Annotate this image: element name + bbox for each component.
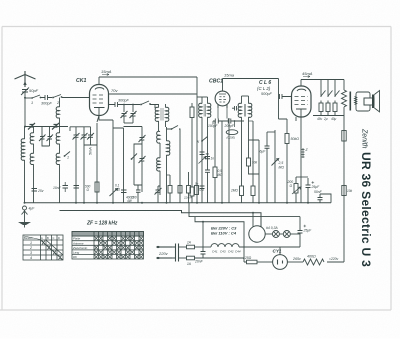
svg-text:C: C xyxy=(53,236,55,240)
IF1 core xyxy=(204,104,205,117)
svg-text:Zwischenkr.: Zwischenkr. xyxy=(72,246,88,250)
svg-text:15ma: 15ma xyxy=(224,73,235,78)
rail B y210 stepping to y212.8, ends at motor xyxy=(60,211,262,227)
fuse top xyxy=(179,241,204,249)
screen resistor 50k xyxy=(285,119,299,203)
svg-text:#4 0,3A: #4 0,3A xyxy=(266,226,278,230)
resistor box x253 xyxy=(249,121,256,203)
osc coil E xyxy=(167,127,170,203)
coil column B upper xyxy=(30,127,33,154)
oscillator IF coil pair (x158/165, y107-121) xyxy=(155,104,169,131)
junction dots rail A xyxy=(24,202,310,223)
screen line 70v xyxy=(109,88,197,94)
secondary voice-coil winding xyxy=(355,97,357,105)
oscillator branch wire x142 xyxy=(124,127,143,193)
svg-text:MΩ: MΩ xyxy=(279,165,285,169)
band switch contact 2 xyxy=(52,95,62,106)
series capacitor 300pF xyxy=(41,95,52,106)
oscillator switch branch xyxy=(131,144,142,185)
wire 296-308 top xyxy=(296,176,308,178)
wire antenna to grid bus xyxy=(24,93,26,127)
svg-text:400Ω: 400Ω xyxy=(307,255,316,259)
svg-text:265v: 265v xyxy=(292,257,301,261)
resistor 0.5M x215 xyxy=(213,121,223,203)
switch to osc grid top xyxy=(167,126,181,203)
wire grid return row xyxy=(70,127,91,131)
rail D from step x189 to x300 xyxy=(189,203,300,217)
dial lamps xyxy=(265,226,300,238)
coil column C lower xyxy=(56,153,59,203)
band switch contact 1 xyxy=(31,95,41,105)
svg-text:ZF = 128 kHz: ZF = 128 kHz xyxy=(86,221,118,227)
svg-text:2MΩ: 2MΩ xyxy=(230,189,238,193)
cathode capacitor C-k2 xyxy=(81,127,88,203)
trimmer bottoms tie line xyxy=(124,122,133,124)
svg-text:Platte: Platte xyxy=(73,237,81,241)
tube CBC1 xyxy=(215,79,230,109)
anode rail 45mA xyxy=(301,71,344,80)
motor / drum xyxy=(249,226,265,242)
padder trimmer capacitor right xyxy=(47,127,54,147)
svg-text:CBC1: CBC1 xyxy=(209,79,223,85)
svg-text:(C L 2): (C L 2) xyxy=(257,86,271,91)
wire antenna junction to band switch xyxy=(25,97,31,99)
junction dot antenna xyxy=(24,97,26,99)
small resistor box near x196 bottom xyxy=(195,186,205,195)
wire IF1 tops xyxy=(197,96,208,98)
svg-text:4μF: 4μF xyxy=(29,207,36,211)
trimmer cap on bus at x31 xyxy=(28,123,35,130)
osc coil D lower xyxy=(157,158,160,195)
output transformer primary (zigzag) xyxy=(342,80,347,263)
IF transformer 1 right coil xyxy=(208,97,211,160)
paper texture noise xyxy=(0,0,1,1)
trimmer capacitor C-t1 xyxy=(121,104,128,123)
svg-text:Antenne: Antenne xyxy=(72,241,84,245)
IF transformer 1 left coil xyxy=(199,97,202,203)
svg-text:1: 1 xyxy=(31,101,33,105)
osc padder caps bottom xyxy=(131,185,141,203)
volume pot 0.1M x113 xyxy=(110,184,121,197)
antenna coil A (tall) xyxy=(21,127,24,203)
resistor boxes bottom row x180/x188 xyxy=(178,186,182,194)
pot 2.5M x275 xyxy=(272,130,285,203)
svg-text:C44: C44 xyxy=(235,250,241,254)
svg-text:A: A xyxy=(41,236,43,240)
CBC1 pin wires down xyxy=(221,121,223,203)
coupling capacitor 500pF to CL6 grid xyxy=(261,92,292,99)
wire CK1 cathode to divider xyxy=(97,116,113,123)
grid-bus top wire with trimmers (y126.5) xyxy=(24,126,68,128)
motor left top wire xyxy=(252,213,254,227)
filter choke 4 humps xyxy=(203,244,300,254)
fuse bottom xyxy=(179,256,245,266)
wire switch to CK1 grid xyxy=(62,97,90,99)
cathode capacitor C-k1 xyxy=(73,127,80,203)
cap 5n on x202 xyxy=(195,182,205,189)
table 2 xyxy=(72,232,144,260)
mains plug prong bottom xyxy=(156,257,172,259)
table 1 xyxy=(23,235,63,260)
rail E from step x195 to x244 down to mains return xyxy=(195,217,244,258)
svg-text:10nF: 10nF xyxy=(53,186,62,190)
wire tap down to input coil xyxy=(59,98,61,108)
small oval label C200 xyxy=(226,130,238,140)
svg-text:CK1: CK1 xyxy=(76,78,86,84)
PART2 xyxy=(18,80,380,270)
rectifier CY1 xyxy=(273,247,288,269)
svg-text:Bereich: Bereich xyxy=(24,236,33,240)
anode supply rail 15mA xyxy=(99,69,197,77)
svg-text:10k: 10k xyxy=(347,189,353,193)
svg-text:300pF: 300pF xyxy=(118,99,129,103)
wire x113 xyxy=(112,120,114,203)
cap on x202 xyxy=(200,152,210,156)
svg-text:UR 36 Selectric U 3: UR 36 Selectric U 3 xyxy=(359,152,373,267)
svg-text:5n: 5n xyxy=(195,182,199,186)
svg-text:C42: C42 xyxy=(228,250,234,254)
svg-text:100pF: 100pF xyxy=(208,124,218,128)
IF transformer 2 right coil xyxy=(247,96,260,174)
cathode capacitor C-k3 xyxy=(84,127,97,145)
wire down x278 and 500pF coupling xyxy=(279,79,288,120)
wire x123.5 xyxy=(113,128,124,203)
svg-text:70v: 70v xyxy=(111,88,118,93)
IF transformer 2 left coil xyxy=(230,96,244,203)
svg-text:3: 3 xyxy=(30,251,32,255)
trimmer capacitor C-t2 xyxy=(130,104,137,123)
resistor box 7k x170 xyxy=(167,175,173,203)
wire x203 up to rail D xyxy=(202,222,204,247)
ground xyxy=(18,210,31,228)
svg-text:1A: 1A xyxy=(187,262,191,266)
svg-text:25μF: 25μF xyxy=(311,185,321,189)
PART3 xyxy=(23,118,255,260)
antenna trimmer capacitor 50pF xyxy=(21,88,39,96)
svg-text:Bei 110V : C4: Bei 110V : C4 xyxy=(211,231,237,236)
wire 267-275 top xyxy=(267,131,275,133)
IF2 core xyxy=(244,104,245,117)
pot arrow on x202 xyxy=(199,157,206,164)
oscillator trimmer upper xyxy=(139,135,146,142)
svg-text:≈220v: ≈220v xyxy=(329,257,339,261)
cap at x76 xyxy=(74,186,80,189)
resistor 2M x229 xyxy=(228,118,230,203)
cap at x207.5 xyxy=(205,160,210,203)
wire IF2 top xyxy=(242,95,249,97)
cap 50nF at x320 xyxy=(314,190,331,203)
svg-text:C43: C43 xyxy=(220,250,226,254)
CBC1 anode rail 15ma xyxy=(223,73,279,79)
coupling capacitor 300pF right of CK1 xyxy=(109,99,141,108)
padder trimmer capacitor left xyxy=(39,127,50,147)
wire rail down at x197 xyxy=(196,77,198,203)
plug body xyxy=(172,244,179,262)
svg-text:220v: 220v xyxy=(158,251,169,256)
electrolytic 25uF right xyxy=(298,217,313,247)
svg-text:500pF: 500pF xyxy=(261,92,272,96)
svg-text:45v: 45v xyxy=(317,117,323,121)
svg-text:1n: 1n xyxy=(211,157,215,161)
svg-text:25μF: 25μF xyxy=(303,229,313,233)
svg-text:5mA: 5mA xyxy=(89,147,93,155)
svg-text:DK: DK xyxy=(73,255,77,259)
svg-text:Ω: Ω xyxy=(290,184,293,188)
switch row to IF coil xyxy=(140,101,155,108)
dropper resistor boxes on supply line x344 xyxy=(342,131,353,196)
svg-text:C41: C41 xyxy=(212,250,218,254)
svg-text:50nF: 50nF xyxy=(314,190,323,194)
CL6 cathode wires xyxy=(295,117,297,121)
input coil L1 xyxy=(56,107,59,127)
loudspeaker xyxy=(356,91,380,112)
svg-text:4: 4 xyxy=(30,256,32,260)
svg-text:125Ω: 125Ω xyxy=(243,256,252,260)
resistor 500ohm x97 xyxy=(85,182,99,192)
svg-text:1A: 1A xyxy=(187,241,191,245)
cap 10nF at x65 xyxy=(53,182,68,192)
svg-text:50kΩ: 50kΩ xyxy=(291,137,300,141)
wave switch near coil C xyxy=(64,152,70,160)
rail A y202.8 xyxy=(25,202,332,204)
svg-text:300pF: 300pF xyxy=(41,102,52,106)
svg-text:B: B xyxy=(47,236,49,240)
svg-text:6μF: 6μF xyxy=(260,150,267,154)
resistor 200 ohm + pot xyxy=(287,177,301,203)
cap 6uF x267 xyxy=(260,132,270,203)
svg-text:2,5: 2,5 xyxy=(278,161,284,165)
wire x259 xyxy=(249,140,260,203)
svg-text:40μ: 40μ xyxy=(331,117,337,121)
RF choke Z x303 xyxy=(302,148,309,158)
tube CL6 xyxy=(292,80,312,118)
IF2 parallel cap xyxy=(232,106,237,111)
cap 20nF across mains xyxy=(194,247,206,264)
resistor 400 ohm zigzag xyxy=(303,255,344,266)
svg-text:Zenith: Zenith xyxy=(361,128,368,149)
cap 25v at x34 xyxy=(32,189,44,194)
coil column B lower xyxy=(30,153,33,203)
svg-text:2μ: 2μ xyxy=(323,117,328,121)
PSU dropper 1 xyxy=(317,80,326,122)
trimmer cap on bus at x55 xyxy=(52,123,59,130)
PSU dropper 2 xyxy=(323,80,333,122)
svg-text:45mA: 45mA xyxy=(302,71,313,76)
svg-text:50pF: 50pF xyxy=(29,88,39,93)
ballast resistor 125ohm xyxy=(243,256,273,264)
osc coil D upper xyxy=(157,131,160,158)
svg-text:D: D xyxy=(58,236,60,240)
mid vertical resistor x192 xyxy=(190,103,194,203)
PSU dropper 3 xyxy=(331,80,340,122)
transformer core xyxy=(349,92,351,111)
oscillator trimmer lower xyxy=(139,156,146,163)
x marks pattern xyxy=(95,237,144,259)
antenna xyxy=(15,71,36,87)
svg-text:CY1: CY1 xyxy=(273,249,282,254)
cathode wire 5mA down xyxy=(89,123,98,203)
svg-text:(C200): (C200) xyxy=(227,136,236,140)
switch under IF1 xyxy=(197,137,208,145)
tube CK1 xyxy=(90,77,109,116)
coil column C upper xyxy=(56,127,59,154)
caps under CBC1 100pF 200pF xyxy=(208,106,244,129)
svg-text:20nF: 20nF xyxy=(194,260,204,264)
wire CY1 right 265v xyxy=(287,257,303,262)
PSU bottom rail xyxy=(313,115,344,117)
mains plug prong top xyxy=(156,246,172,248)
svg-text:25v: 25v xyxy=(37,189,44,193)
svg-text:MΩ: MΩ xyxy=(115,187,121,191)
svg-text:22mA: 22mA xyxy=(183,196,192,200)
decoupling electrolytic + ground at left xyxy=(23,206,36,211)
svg-text:50: 50 xyxy=(206,152,210,156)
cap 1n under IF1 xyxy=(205,157,214,161)
svg-text:15mA: 15mA xyxy=(101,69,112,74)
cap x123.5 xyxy=(121,190,134,203)
svg-text:0,1: 0,1 xyxy=(200,188,205,192)
svg-text:Lang: Lang xyxy=(73,251,80,255)
svg-text:2: 2 xyxy=(29,246,32,250)
electrolytic 25uF at x308 xyxy=(306,178,321,203)
osc padder trimmer cap right xyxy=(155,186,162,203)
svg-text:1: 1 xyxy=(30,241,32,245)
svg-text:1: 1 xyxy=(67,156,69,160)
